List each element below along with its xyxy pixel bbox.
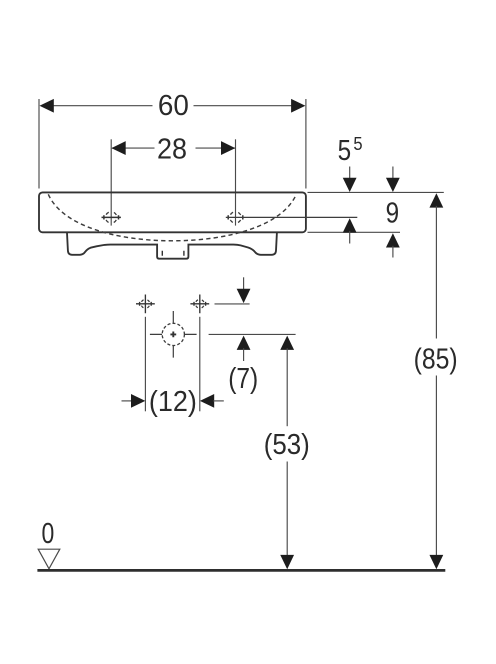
dimension 85 top arrow (429, 193, 443, 207)
dimension 12 extension line right (199, 317, 201, 412)
mounting hole left circle (141, 299, 150, 308)
dimension 53 top arrow (280, 336, 294, 350)
dimension 5.5 upper stem (349, 167, 351, 181)
mounting hole right cross (190, 295, 209, 314)
dimension 60 arrow right (291, 99, 305, 113)
dimension 5.5 lower arrow (343, 218, 357, 232)
washbasin underside profile (67, 233, 277, 259)
faucet hole left circle (106, 212, 117, 223)
datum triangle (38, 549, 60, 569)
dimension 12 extension line left (144, 317, 146, 412)
dimension 7 bottom stem (243, 348, 245, 361)
dimension 12 right arrow (200, 394, 214, 408)
bowl dashed curve (48, 194, 296, 241)
svg-text:28: 28 (157, 133, 187, 165)
dimension 28 arrow right (221, 141, 235, 155)
dimension 7 top stem (243, 277, 245, 290)
dimension 12 right arrow tail (213, 400, 224, 402)
svg-text:5: 5 (338, 135, 352, 167)
svg-text:5: 5 (353, 133, 362, 154)
dimension 53 line upper part (286, 348, 288, 426)
dimension 53 line lower part (286, 462, 288, 557)
faucet hole right circle (230, 212, 241, 223)
dimension 60 arrow left (40, 99, 54, 113)
svg-text:9: 9 (386, 198, 400, 230)
floor line (37, 569, 445, 572)
dimension 12 left arrow tail (122, 400, 133, 402)
dimension 60 line (41, 105, 304, 107)
washbasin body outline (39, 192, 306, 232)
top edge extension line (308, 191, 444, 193)
dimension 7 top arrow (237, 289, 251, 303)
dimension 7 bottom reference line (209, 333, 296, 335)
mounting hole left cross (136, 295, 155, 314)
dimension 12 left arrow (131, 394, 145, 408)
dimension 7 top reference line (215, 303, 250, 305)
dimension 28 line (112, 147, 235, 149)
svg-text:60: 60 (158, 90, 189, 122)
dimension 60 extension line left (38, 99, 40, 189)
dimension 5.5 lower stem (349, 231, 351, 244)
drain box inner ticks (162, 251, 184, 256)
dimension 9 upper arrow (386, 178, 400, 192)
dimension 9 lower stem (392, 246, 394, 258)
dimension 7 bottom arrow (237, 336, 251, 350)
faucet hole left cross arm (102, 215, 121, 219)
dimension 85 bottom arrow (429, 555, 443, 569)
svg-text:(12): (12) (149, 386, 197, 418)
svg-text:(53): (53) (264, 429, 310, 461)
dimension 9 lower arrow (386, 233, 400, 247)
dimension 5.5 upper arrow (343, 178, 357, 192)
dimension 85 line upper part (435, 206, 437, 339)
drain center cross (170, 332, 176, 338)
dimension 85 line lower part (435, 376, 437, 557)
mounting hole right circle (195, 299, 204, 308)
drain centerlines (150, 311, 197, 358)
dimension 9 upper stem (392, 167, 394, 181)
dimension 28 arrow left (111, 141, 125, 155)
svg-text:(7): (7) (228, 363, 258, 395)
svg-text:0: 0 (42, 518, 55, 550)
bottom edge extension line (308, 231, 401, 233)
dimension 60 extension line right (305, 99, 307, 189)
dimension 28 extension line right (235, 139, 237, 225)
drain circle dashed (162, 323, 184, 345)
dimension 53 bottom arrow (280, 555, 294, 569)
dimension 28 extension line left (110, 139, 112, 225)
faucet hole right cross arm and leader to 5.5 dim (228, 215, 243, 219)
svg-text:(85): (85) (414, 344, 458, 376)
